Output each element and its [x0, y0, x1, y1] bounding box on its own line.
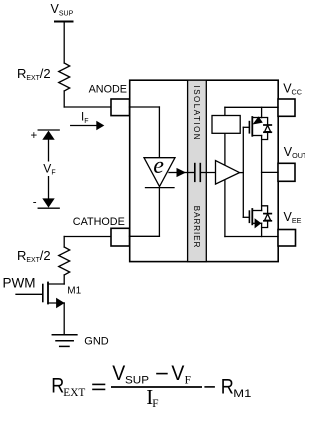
svg-text:F: F: [152, 398, 158, 410]
svg-text:EXT: EXT: [63, 387, 85, 399]
svg-text:V: V: [171, 362, 184, 385]
svg-text:PWM: PWM: [3, 276, 36, 291]
svg-text:F: F: [185, 375, 191, 387]
svg-text:ANODE: ANODE: [89, 84, 127, 96]
svg-text:BARRIER: BARRIER: [192, 206, 201, 249]
svg-text:CATHODE: CATHODE: [73, 216, 125, 228]
svg-text:M1: M1: [233, 388, 251, 400]
svg-text:+: +: [31, 130, 38, 142]
svg-text:ISOLATION: ISOLATION: [192, 86, 201, 142]
svg-text:R: R: [221, 376, 234, 399]
svg-text:e: e: [153, 153, 164, 179]
svg-text:GND: GND: [84, 336, 109, 348]
svg-text:V: V: [112, 362, 125, 385]
svg-text:-: -: [33, 197, 37, 209]
svg-text:M1: M1: [67, 286, 81, 297]
